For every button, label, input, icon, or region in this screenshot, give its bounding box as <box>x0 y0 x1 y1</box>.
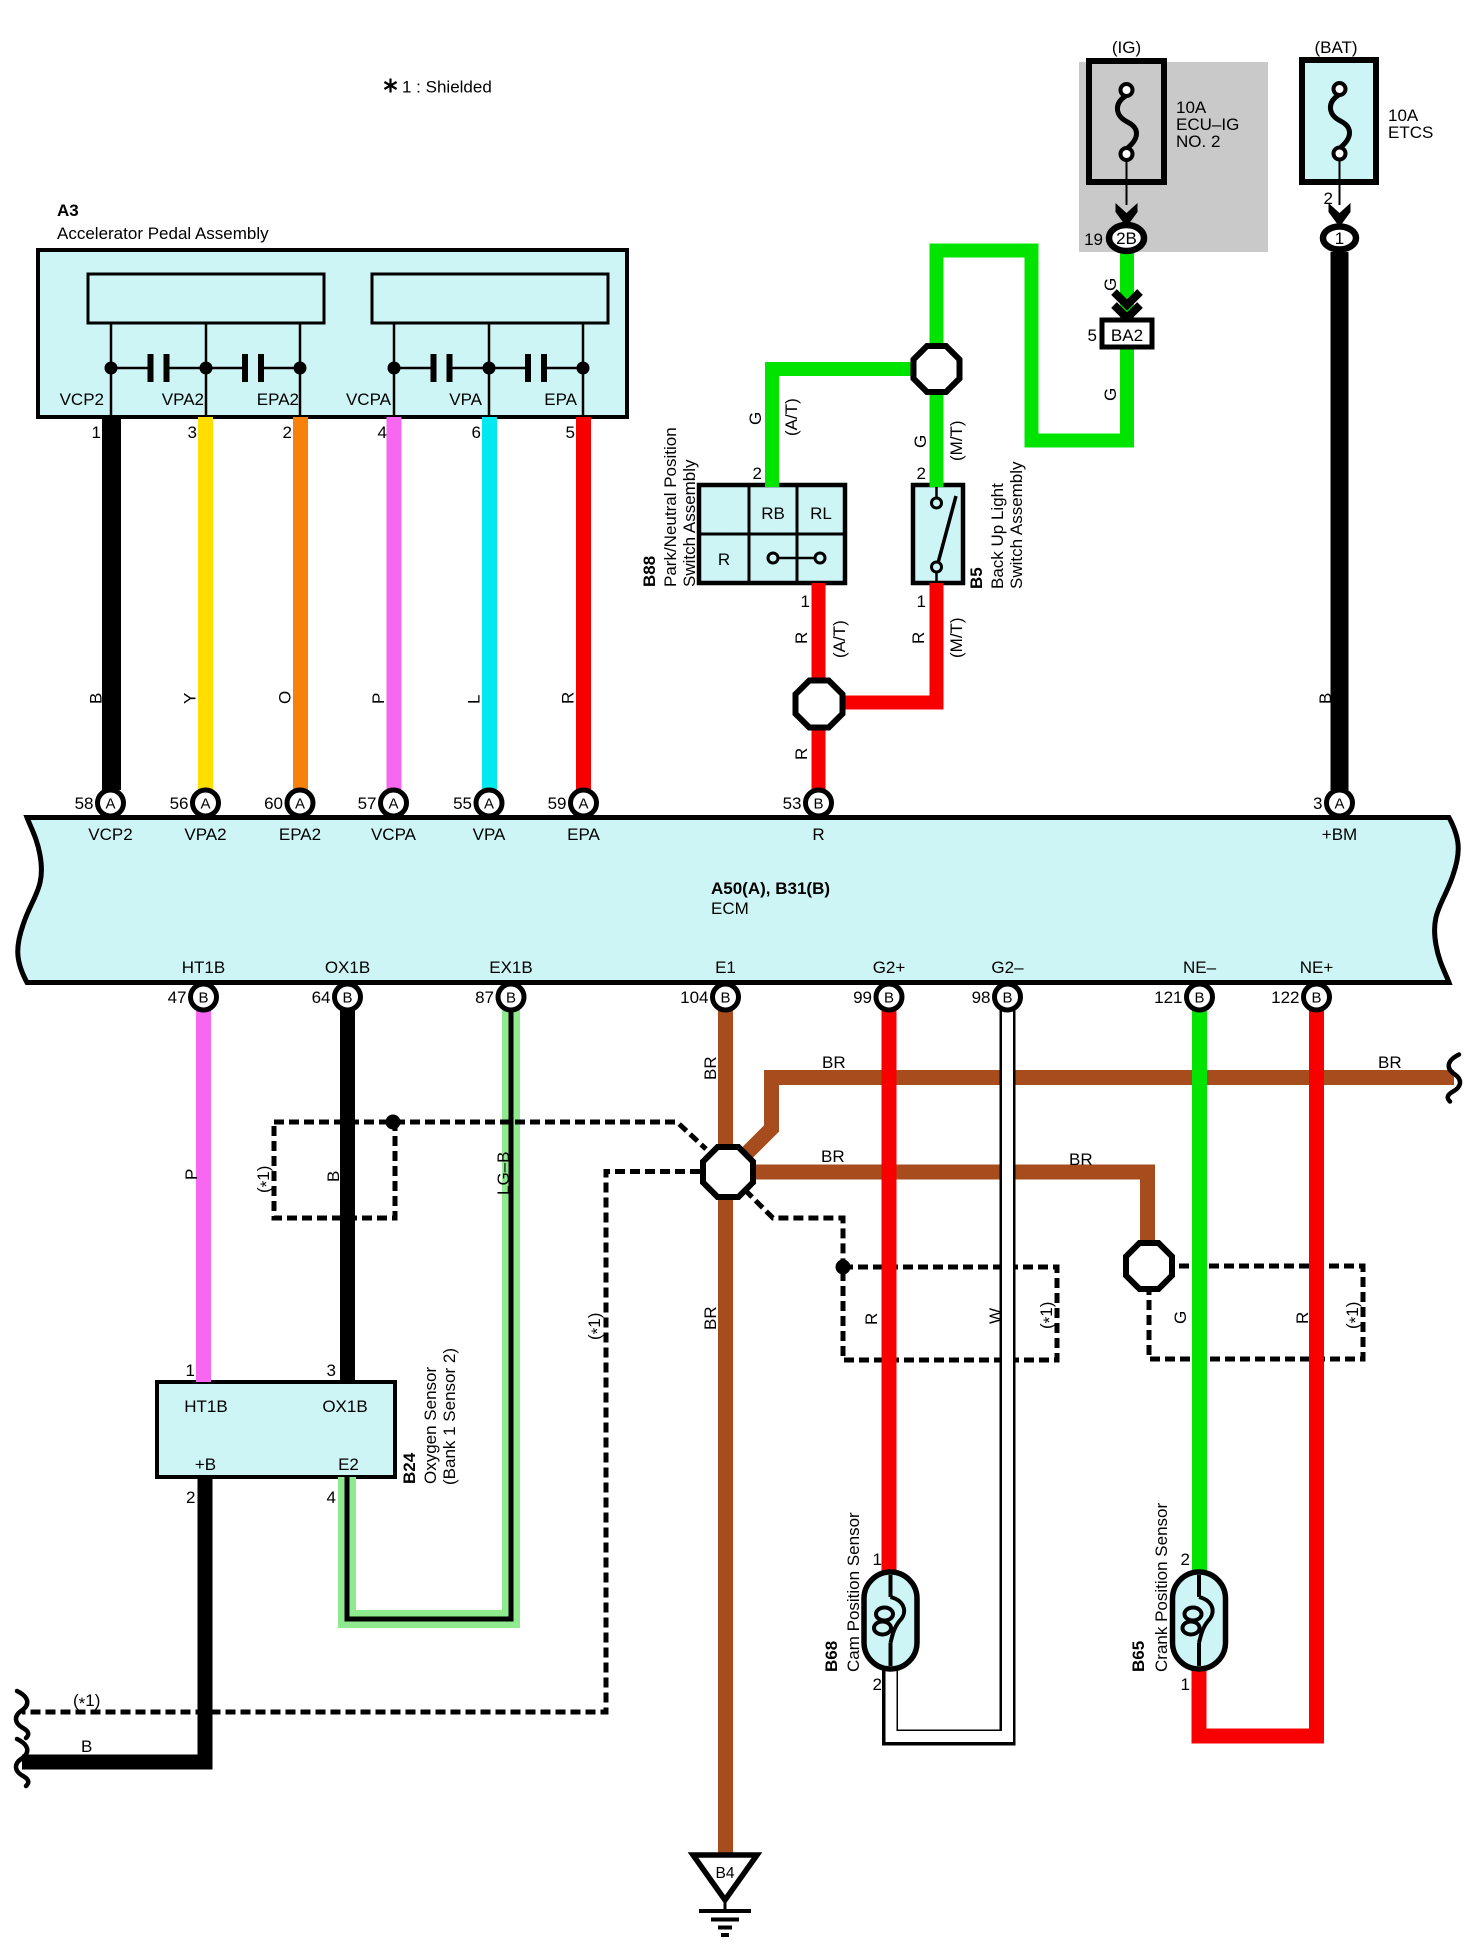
svg-text:58: 58 <box>75 794 94 813</box>
A3 Accelerator Pedal Assembly block <box>38 250 627 417</box>
svg-text:HT1B: HT1B <box>182 958 225 977</box>
svg-text:G: G <box>1171 1311 1190 1324</box>
svg-text:B: B <box>198 990 208 1007</box>
B5 Back Up Light Switch Assembly <box>913 485 963 583</box>
svg-text:(M/T): (M/T) <box>947 420 966 461</box>
red wire B88 pin1 to junction <box>812 583 826 704</box>
svg-text:(*1): (*1) <box>1037 1302 1059 1329</box>
svg-text:Park/Neutral Position: Park/Neutral Position <box>661 427 680 587</box>
svg-text:A: A <box>295 796 305 813</box>
shield junction dot at cam shield box <box>836 1260 851 1275</box>
svg-text:4: 4 <box>378 423 387 442</box>
svg-text:A: A <box>1334 796 1344 813</box>
svg-text:Back Up Light: Back Up Light <box>988 483 1007 589</box>
junction octagon E1 shield ground <box>703 1147 753 1197</box>
ECM pin 87(B) <box>498 984 524 1010</box>
svg-text:1: 1 <box>917 592 926 611</box>
svg-text:2: 2 <box>1181 1550 1190 1569</box>
svg-text:(*1): (*1) <box>254 1166 276 1193</box>
svg-text:ECM: ECM <box>711 899 749 918</box>
svg-text:B88: B88 <box>640 556 659 587</box>
svg-text:Crank Position Sensor: Crank Position Sensor <box>1152 1503 1171 1672</box>
svg-text:B: B <box>1311 990 1321 1007</box>
svg-text:5: 5 <box>1088 326 1097 345</box>
svg-text:47: 47 <box>168 988 187 1007</box>
B65 Crank Position Sensor <box>1173 1572 1226 1669</box>
wire EPA2 orange A3 pin2 to ECM 60 <box>293 417 308 790</box>
svg-text:EX1B: EX1B <box>489 958 532 977</box>
svg-text:1 : Shielded: 1 : Shielded <box>402 78 492 97</box>
junction octagon green (A/T-M/T split) <box>914 346 960 392</box>
svg-text:2: 2 <box>917 464 926 483</box>
connector 2B oval <box>1109 225 1144 251</box>
svg-text:G: G <box>746 412 765 425</box>
svg-text:1: 1 <box>92 423 101 442</box>
wire break squiggle BR right <box>1448 1055 1460 1102</box>
svg-text:1: 1 <box>1335 229 1344 248</box>
ECM pin 60(A) <box>287 790 313 816</box>
ECM block A50(A), B31(B) <box>18 818 1458 983</box>
svg-text:5: 5 <box>566 423 575 442</box>
A3 sensor wires <box>110 323 113 417</box>
svg-text:(IG): (IG) <box>1112 38 1141 57</box>
ECM pin 64(B) <box>335 984 361 1010</box>
B68 Cam Position Sensor <box>864 1572 917 1669</box>
svg-text:Oxygen Sensor: Oxygen Sensor <box>421 1366 440 1484</box>
svg-text:R: R <box>862 1313 881 1325</box>
svg-text:R: R <box>559 692 578 704</box>
shield dashed diagonal octagon to cam-sensor shield box <box>745 1190 843 1267</box>
svg-text:B: B <box>87 693 106 704</box>
svg-text:G2+: G2+ <box>873 958 906 977</box>
svg-text:OX1B: OX1B <box>325 958 370 977</box>
ECM pin 3(A) <box>1327 790 1353 816</box>
svg-text:A: A <box>200 796 210 813</box>
svg-text:R: R <box>909 632 928 644</box>
svg-text:104: 104 <box>680 988 708 1007</box>
svg-text:W: W <box>986 1308 1005 1324</box>
fuse 10A ECU-IG NO.2 <box>1089 61 1164 182</box>
shield dashed line from E1 node to left/down (*1) <box>22 1172 700 1713</box>
A3 inner sensor box 2 <box>372 274 608 323</box>
svg-text:OX1B: OX1B <box>322 1397 367 1416</box>
svg-text:BR: BR <box>701 1056 720 1080</box>
svg-text:B: B <box>813 796 823 813</box>
double chevron arrow on green wire <box>1114 292 1140 305</box>
svg-text:EPA2: EPA2 <box>279 825 321 844</box>
arrow into connector 1 <box>1329 203 1351 227</box>
shield junction dot <box>386 1115 401 1130</box>
svg-text:BR: BR <box>822 1053 846 1072</box>
wire VPA2 yellow A3 pin3 to ECM 56 <box>198 417 213 790</box>
red wire ECM 122 NE+ loop to crank sensor pin1 <box>1199 1010 1317 1736</box>
svg-text:Y: Y <box>181 693 200 704</box>
svg-text:VCP2: VCP2 <box>60 390 104 409</box>
IG fuse gray block <box>1079 62 1268 252</box>
svg-text:P: P <box>182 1169 201 1180</box>
svg-text:VCPA: VCPA <box>346 390 392 409</box>
svg-text:G: G <box>911 435 930 448</box>
svg-text:VPA: VPA <box>473 825 506 844</box>
ECM pin 98(B) <box>995 984 1021 1010</box>
ECM pin 57(A) <box>381 790 407 816</box>
green wire IG fuse 2B to junction (Z path) <box>937 251 1128 441</box>
svg-text:NO. 2: NO. 2 <box>1176 132 1220 151</box>
svg-text:A: A <box>105 796 115 813</box>
svg-text:4: 4 <box>327 1488 336 1507</box>
ECM pin 56(A) <box>193 790 219 816</box>
svg-text:(*1): (*1) <box>73 1691 100 1713</box>
wire break squiggle B left <box>16 1739 28 1786</box>
svg-text:BA2: BA2 <box>1111 326 1143 345</box>
junction octagon red (A/T-M/T merge) <box>796 681 843 728</box>
svg-text:NE+: NE+ <box>1300 958 1334 977</box>
svg-text:+BM: +BM <box>1322 825 1357 844</box>
shield dashed box around crank sensor wires (*1) <box>1149 1266 1363 1359</box>
svg-text:E2: E2 <box>338 1455 359 1474</box>
svg-text:R: R <box>1293 1312 1312 1324</box>
wire VPA light-blue A3 pin6 to ECM 55 <box>482 417 497 790</box>
pink wire ECM 47 to B24 HT1B <box>196 1010 211 1382</box>
svg-text:99: 99 <box>853 988 872 1007</box>
svg-text:B4: B4 <box>716 1865 735 1882</box>
svg-text:(M/T): (M/T) <box>947 617 966 658</box>
svg-text:1: 1 <box>1181 1675 1190 1694</box>
wire EPA red A3 pin5 to ECM 59 <box>576 417 591 790</box>
B5 switch symbol <box>935 487 938 500</box>
capacitor symbol <box>394 367 434 370</box>
svg-text:60: 60 <box>264 794 283 813</box>
svg-text:G: G <box>1101 388 1120 401</box>
ECM pin 122(B) <box>1304 984 1330 1010</box>
svg-text:2B: 2B <box>1116 229 1137 248</box>
ECM pin 99(B) <box>876 984 902 1010</box>
svg-text:2: 2 <box>283 423 292 442</box>
svg-text:1: 1 <box>801 592 810 611</box>
black wire B24 +B pin2 to left break <box>22 1477 205 1762</box>
svg-text:E1: E1 <box>715 958 736 977</box>
svg-text:BR: BR <box>1069 1150 1093 1169</box>
svg-text:Accelerator Pedal Assembly: Accelerator Pedal Assembly <box>57 224 269 243</box>
svg-text:Switch Assembly: Switch Assembly <box>1007 461 1026 589</box>
svg-text:B: B <box>720 990 730 1007</box>
green wire junction to B5 pin2 (M/T) <box>930 376 944 487</box>
svg-text:53: 53 <box>783 794 802 813</box>
svg-text:Cam Position Sensor: Cam Position Sensor <box>844 1512 863 1672</box>
wire break squiggle shield left <box>16 1691 28 1738</box>
red wire B5 pin1 to junction (M/T) <box>838 583 937 703</box>
ECM pin 58(A) <box>98 790 124 816</box>
svg-text:(*1): (*1) <box>585 1313 607 1340</box>
junction octagon crank shield <box>1126 1243 1172 1289</box>
svg-text:NE–: NE– <box>1183 958 1217 977</box>
svg-text:EPA2: EPA2 <box>257 390 299 409</box>
svg-text:64: 64 <box>312 988 331 1007</box>
ECM pin 121(B) <box>1187 984 1213 1010</box>
svg-text:B: B <box>1316 693 1335 704</box>
svg-text:LG–B: LG–B <box>494 1152 513 1195</box>
A3 sensor wires <box>393 323 396 417</box>
svg-text:+B: +B <box>195 1455 216 1474</box>
svg-text:(A/T): (A/T) <box>782 398 801 436</box>
svg-text:56: 56 <box>170 794 189 813</box>
svg-text:VPA2: VPA2 <box>184 825 226 844</box>
svg-text:VPA2: VPA2 <box>162 390 204 409</box>
svg-text:ETCS: ETCS <box>1388 123 1433 142</box>
capacitor symbol <box>206 367 245 370</box>
svg-text:R: R <box>792 632 811 644</box>
svg-text:98: 98 <box>972 988 991 1007</box>
svg-text:1: 1 <box>186 1361 195 1380</box>
A3 inner sensor box 1 <box>88 274 324 323</box>
svg-text:Switch Assembly: Switch Assembly <box>680 459 699 587</box>
capacitor symbol <box>111 367 151 370</box>
ECM pin 55(A) <box>476 790 502 816</box>
ECM pin 104(B) <box>713 984 739 1010</box>
shield dashed box around OX1B wire (*1) <box>274 1122 395 1218</box>
svg-text:B: B <box>342 990 352 1007</box>
svg-text:B: B <box>324 1171 343 1182</box>
svg-text:BR: BR <box>821 1147 845 1166</box>
svg-text:VCP2: VCP2 <box>88 825 132 844</box>
ECM pin 53(B) <box>806 790 832 816</box>
svg-text:B: B <box>884 990 894 1007</box>
red wire junction to ECM 53 <box>812 704 826 790</box>
svg-text:(A/T): (A/T) <box>830 620 849 658</box>
arrow into 2B connector <box>1116 203 1138 227</box>
B88 Park/Neutral Position Switch Assembly <box>699 485 845 583</box>
connector 1 oval <box>1323 227 1356 250</box>
svg-text:1: 1 <box>873 1550 882 1569</box>
svg-text:6: 6 <box>472 423 481 442</box>
fuse 10A ETCS <box>1302 60 1376 182</box>
svg-text:(BAT): (BAT) <box>1314 38 1357 57</box>
svg-text:2: 2 <box>1324 189 1333 208</box>
svg-text:B5: B5 <box>967 567 986 589</box>
svg-text:19: 19 <box>1084 230 1103 249</box>
svg-text:2: 2 <box>753 464 762 483</box>
brown wire branch BR to shield junction (row 2) <box>741 1172 1148 1242</box>
svg-text:G: G <box>1101 278 1120 291</box>
svg-text:EPA: EPA <box>567 825 600 844</box>
svg-text:A: A <box>388 796 398 813</box>
svg-text:EPA: EPA <box>544 390 577 409</box>
svg-text:B65: B65 <box>1129 1641 1148 1672</box>
shield dashed line B junction to E1 octagon <box>395 1122 706 1149</box>
svg-text:(*1): (*1) <box>1343 1302 1365 1329</box>
svg-text:P: P <box>369 693 388 704</box>
svg-text:RB: RB <box>761 504 785 523</box>
brown wire ECM 104 E1 to ground B4 <box>718 1010 733 1856</box>
svg-text:B: B <box>1002 990 1012 1007</box>
svg-text:2: 2 <box>873 1675 882 1694</box>
capacitor symbol <box>489 367 528 370</box>
brown wire branch BR to right break (row 1) <box>746 1078 1454 1155</box>
svg-text:L: L <box>465 695 484 704</box>
svg-text:59: 59 <box>548 794 567 813</box>
svg-text:3: 3 <box>188 423 197 442</box>
connector BA2 <box>1102 320 1152 347</box>
svg-text:B24: B24 <box>400 1452 419 1484</box>
legend *1 Shielded <box>384 79 396 93</box>
shield dashed box around cam sensor wires (*1) <box>843 1267 1057 1360</box>
svg-text:A50(A), B31(B): A50(A), B31(B) <box>711 879 830 898</box>
svg-text:3: 3 <box>327 1361 336 1380</box>
svg-text:R: R <box>792 748 811 760</box>
svg-text:122: 122 <box>1271 988 1299 1007</box>
B24 Oxygen Sensor block <box>157 1382 395 1477</box>
wire VCPA pink A3 pin4 to ECM 57 <box>387 417 402 790</box>
svg-text:BR: BR <box>701 1306 720 1330</box>
svg-text:R: R <box>718 550 730 569</box>
svg-text:57: 57 <box>358 794 377 813</box>
svg-text:3: 3 <box>1313 794 1322 813</box>
red wire ECM 99 G2+ to cam sensor pin1 <box>882 1010 897 1572</box>
svg-text:87: 87 <box>475 988 494 1007</box>
B88 contact symbol <box>773 557 820 560</box>
wire VCP2 black A3 pin1 to ECM 58 <box>102 417 121 790</box>
svg-text:A3: A3 <box>57 201 79 220</box>
svg-text:HT1B: HT1B <box>184 1397 227 1416</box>
svg-text:VCPA: VCPA <box>371 825 417 844</box>
black wire BAT fuse to ECM 3 +BM <box>1331 252 1349 790</box>
svg-text:(Bank 1 Sensor 2): (Bank 1 Sensor 2) <box>440 1348 459 1485</box>
svg-text:2: 2 <box>186 1488 195 1507</box>
svg-text:B68: B68 <box>822 1641 841 1672</box>
svg-text:G2–: G2– <box>991 958 1024 977</box>
green wire junction to B88 pin2 (A/T) <box>772 369 930 487</box>
svg-text:VPA: VPA <box>449 390 482 409</box>
ground B4 <box>693 1855 757 1900</box>
LG-B wire ECM 87 EX1B loop to B24 E2 <box>347 1010 511 1619</box>
ECM pin 47(B) <box>191 984 217 1010</box>
svg-text:A: A <box>578 796 588 813</box>
svg-text:BR: BR <box>1378 1053 1402 1072</box>
svg-text:B: B <box>81 1737 92 1756</box>
svg-text:B: B <box>506 990 516 1007</box>
svg-text:O: O <box>276 691 295 704</box>
svg-text:B: B <box>1194 990 1204 1007</box>
svg-text:121: 121 <box>1154 988 1182 1007</box>
ECM pin 59(A) <box>571 790 597 816</box>
white wire ECM 98 G2- loop to cam sensor pin2 <box>890 1010 1008 1738</box>
svg-text:55: 55 <box>453 794 472 813</box>
green wire ECM 121 NE- to crank sensor pin2 <box>1192 1010 1207 1572</box>
svg-text:R: R <box>812 825 824 844</box>
black wire ECM 64 to B24 OX1B <box>340 1010 355 1382</box>
svg-text:RL: RL <box>810 504 832 523</box>
svg-text:A: A <box>484 796 494 813</box>
